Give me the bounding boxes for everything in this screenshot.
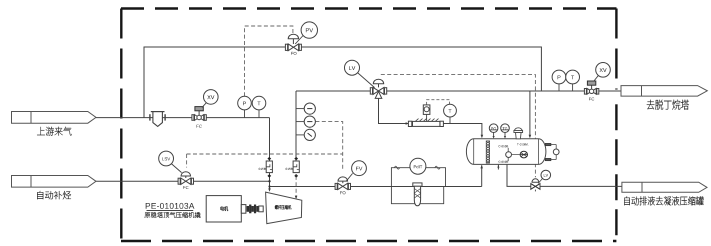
arrows on cooler line <box>406 122 409 125</box>
wire: signal FI to FV valve (dashed) <box>315 122 342 171</box>
vessel vent hat <box>515 128 522 131</box>
instrument bubble TI (riser) <box>296 121 304 123</box>
inline cooler/heater with fins <box>408 121 411 126</box>
instrument bubble FV <box>346 173 352 181</box>
vessel tag T <box>517 143 529 145</box>
wire: makeup pipe y=181.3 <box>96 180 270 182</box>
instrument bubble PV <box>295 36 303 45</box>
arrow into vessel bottom <box>480 165 483 168</box>
vessel internal level instrument <box>507 148 509 152</box>
instrument bubble XV (outlet) <box>594 75 599 81</box>
arrow into compressor suction <box>268 188 271 191</box>
control valve (FC) on makeup line <box>178 178 180 184</box>
instrument bubble T (outlet) <box>572 84 574 91</box>
3-way control valve with LV <box>370 88 372 94</box>
wire: signal loop to drain LV valve (dashed) <box>381 75 536 178</box>
strainer with PdIT bridge on discharge <box>391 168 445 187</box>
node: inlet flag 上游来气 <box>12 112 97 124</box>
instrument bubble XV <box>202 103 206 108</box>
instrument bubble FI (riser) <box>296 134 304 136</box>
instrument bubble LSV <box>171 164 181 173</box>
level gauge bridle on vessel head <box>545 143 551 145</box>
temperature gauge TG on vessel <box>504 133 506 138</box>
node: junction makeup/suction <box>268 180 270 182</box>
check valve on riser x=269.3 <box>266 161 272 173</box>
skid boundary (dashed battery-limit border) <box>121 7 617 9</box>
wire: signal LSV valve to FV valve (dashed) <box>187 153 343 155</box>
node: junction riser top <box>295 174 297 176</box>
vessel nozzle tag C <box>499 145 509 147</box>
coupling shaft <box>241 205 246 214</box>
control valve LV on drain <box>531 184 540 190</box>
instrument bubble T (inlet) <box>258 110 260 118</box>
wire: discharge riser x=296 with instruments <box>295 91 297 161</box>
instrument bubble T (cooler outlet) <box>449 117 451 124</box>
node: drain flag 自动排液去凝液压缩罐 <box>622 182 707 192</box>
pressure gauge PG on vessel <box>493 133 495 138</box>
wire: outlet header y=91 <box>296 90 621 92</box>
filter (cone strainer) on inlet line <box>149 114 151 120</box>
equipment tag PE-010103A <box>146 203 195 209</box>
control valve PV (FO) on recycle line <box>285 44 287 50</box>
wire: inlet pipe (upstream gas) y=117.6 <box>96 117 270 119</box>
node: makeup flag 自动补烃 <box>12 176 97 188</box>
vessel drain nozzle stub <box>497 165 499 170</box>
shutdown valve XV (FC) on inlet <box>192 115 194 121</box>
arrow into vessel top from cooler <box>481 135 484 138</box>
wire: signal P-transmitter to PV valve (dashed) <box>245 26 293 96</box>
arrow into vessel top from overhead <box>529 135 532 138</box>
instrument bubble PI (riser) <box>296 108 304 110</box>
equipment name 原稳塔顶气压缩机撬 <box>145 212 201 218</box>
instrument bubble P (outlet) <box>558 84 560 91</box>
wire: vessel drain line <box>507 165 622 187</box>
wire: dashed drop into compressor <box>295 176 297 198</box>
instrument bubble P (inlet) <box>244 110 246 118</box>
wire: suction drop at x=269.5 <box>269 118 271 191</box>
instrument bubble LV (drain) <box>538 178 542 183</box>
instrument bubble PdIT <box>410 158 426 174</box>
inline strainer body <box>413 183 422 186</box>
wire: vessel overhead line x=529.9 <box>529 91 531 137</box>
wire: signal orifice gauge to T bubble (dashed) <box>427 100 450 105</box>
wire: 3-way valve drop + cooler line y=123.5 <box>379 96 482 137</box>
wire: recycle line loop <box>144 47 541 118</box>
separator vessel (horizontal drum) <box>466 139 545 165</box>
control valve FV (FO) on discharge <box>335 183 337 189</box>
vessel inlet vane (hatched strip) <box>486 141 489 163</box>
node: outlet flag 去脱丁烷塔 <box>621 86 707 97</box>
instrument bubble LV (3-way) <box>358 73 375 88</box>
orifice gauge above cooler <box>426 114 428 121</box>
shutdown valve XV (FC) on outlet <box>584 89 586 95</box>
motor (电机) <box>206 196 241 222</box>
compressor (trapezoid) <box>266 192 302 224</box>
node: junction discharge tee <box>268 185 270 187</box>
vessel internal float <box>520 151 527 158</box>
wire: compressor discharge y=186.5 <box>270 186 482 188</box>
check valve on riser x=296.2 <box>293 161 299 173</box>
wire: riser into vessel bottom <box>481 165 483 186</box>
vessel nozzle tag C2 <box>499 161 509 163</box>
